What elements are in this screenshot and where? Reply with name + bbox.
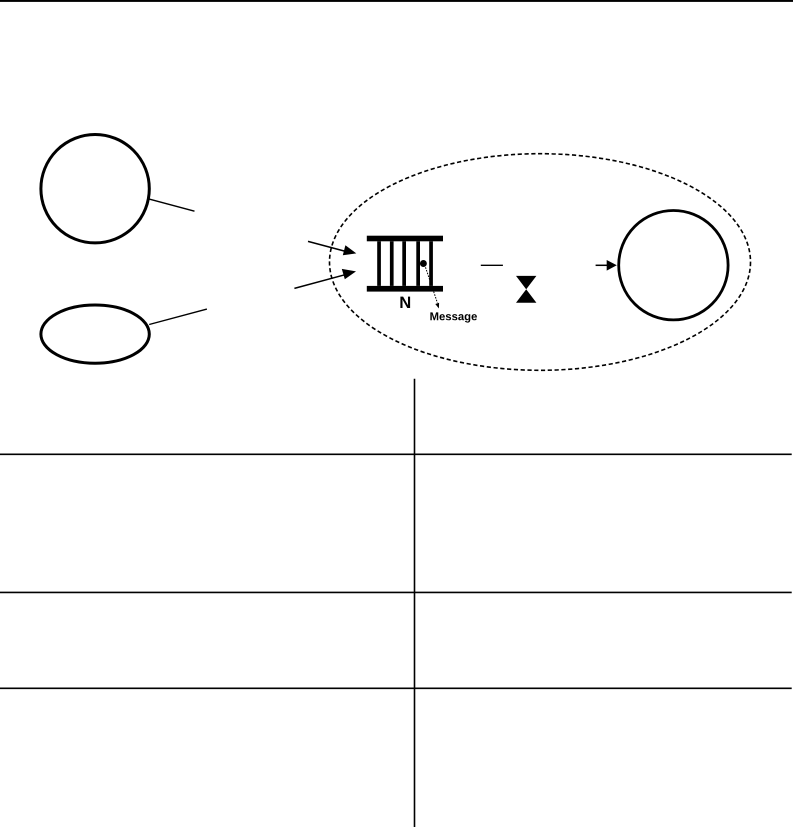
hourglass / bowtie symbol	[516, 276, 536, 303]
node ellipse (left oval state)	[41, 305, 149, 363]
node circle (top-left state)	[41, 135, 149, 243]
node circle (right state)	[619, 211, 728, 320]
arrow into right circle	[596, 260, 617, 271]
table horizontal rule 2	[0, 591, 792, 593]
queue slot line 3	[402, 241, 406, 286]
queue slot line 1	[377, 241, 381, 286]
top border bar	[0, 0, 793, 2]
queue slot line 5	[429, 241, 433, 286]
arrow into queue (lower)	[294, 269, 356, 289]
label N (queue capacity)	[400, 297, 410, 308]
table horizontal rule 3	[0, 687, 792, 689]
dashed system boundary ellipse	[330, 154, 751, 371]
dashed pointer from dot to Message label	[426, 267, 440, 308]
wire from circle	[149, 199, 194, 211]
queue top bar	[367, 236, 443, 242]
queue slot line 4	[416, 241, 420, 286]
arrow into queue (upper)	[308, 241, 356, 255]
table vertical divider	[414, 379, 416, 827]
message dot in queue	[420, 260, 427, 267]
queue bottom bar	[367, 286, 443, 292]
table horizontal rule 1	[0, 453, 792, 455]
wire from ellipse	[149, 309, 207, 324]
label Message	[430, 312, 477, 322]
short dash (link)	[481, 264, 503, 266]
queue slot line 2	[390, 241, 394, 286]
